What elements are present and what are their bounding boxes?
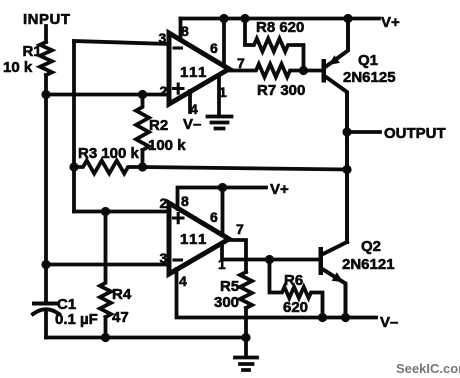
- svg-text:3: 3: [159, 30, 167, 46]
- svg-text:100 k: 100 k: [148, 137, 186, 154]
- wire op1 pin8: [179, 19, 183, 41]
- wire Q2 emitter: [323, 270, 346, 318]
- wire C1 bottom: [44, 310, 48, 338]
- op-amp U1: [169, 33, 229, 104]
- capacitor C1: [34, 302, 58, 306]
- svg-text:V–: V–: [380, 314, 398, 331]
- svg-text:V+: V+: [270, 181, 289, 198]
- node junction C1 pin3: [41, 260, 50, 269]
- node junction R4 top: [101, 207, 110, 216]
- transistor Q2 emitter arrow: [332, 272, 344, 282]
- resistor R2: [136, 95, 149, 168]
- node junction R3 right: [138, 162, 147, 171]
- op-amp U2 minus sign: [174, 258, 182, 261]
- transistor Q1: [322, 59, 327, 83]
- resistor R3: [74, 161, 143, 174]
- svg-text:300: 300: [214, 294, 239, 311]
- svg-text:R7 300: R7 300: [257, 82, 305, 99]
- svg-text:111: 111: [180, 64, 208, 81]
- op-amp U2 plus sign: [174, 214, 184, 223]
- node junction OUTPUT: [342, 127, 351, 136]
- wire op1 pin6: [222, 19, 226, 67]
- svg-text:7: 7: [236, 221, 244, 237]
- wire input stub: [44, 26, 48, 42]
- node junction R7 R8 base: [299, 66, 308, 75]
- svg-text:V–: V–: [183, 116, 201, 133]
- wire op2 pin6: [221, 188, 225, 236]
- wire op1 pin4 stub: [188, 91, 192, 112]
- svg-text:R6: R6: [284, 272, 303, 289]
- node junction R6 left: [265, 255, 274, 264]
- svg-text:6: 6: [210, 40, 218, 56]
- op-amp U1 minus sign: [174, 46, 182, 49]
- node junction R3 left: [69, 162, 78, 171]
- svg-text:R2: R2: [149, 117, 168, 134]
- svg-text:R4: R4: [112, 286, 132, 303]
- node junction R2 top: [138, 90, 147, 99]
- svg-text:2N6121: 2N6121: [342, 256, 395, 273]
- wire left vertical: [44, 95, 48, 302]
- wire Q1 base: [304, 69, 322, 73]
- resistor R8: [245, 19, 304, 71]
- svg-text:SeekIC.com: SeekIC.com: [396, 361, 460, 376]
- wire op2 V+ rail: [178, 188, 267, 210]
- wire Q1 emitter: [326, 19, 348, 67]
- svg-text:3: 3: [160, 250, 168, 266]
- resistor R6: [270, 260, 323, 318]
- svg-text:Q2: Q2: [361, 238, 381, 255]
- wire OUTPUT: [347, 130, 380, 134]
- op-amp U1 plus sign: [174, 84, 184, 93]
- transistor Q1 emitter arrow: [329, 55, 340, 65]
- wire op2 pin2: [74, 210, 169, 214]
- svg-text:1: 1: [219, 84, 227, 100]
- wire feedback to output: [143, 167, 348, 170]
- svg-text:V+: V+: [381, 14, 400, 31]
- svg-text:7: 7: [237, 55, 245, 71]
- node junction R4 bottom: [101, 333, 110, 342]
- svg-text:Q1: Q1: [358, 52, 378, 69]
- svg-text:R5: R5: [220, 278, 239, 295]
- wire op2 pin1 to Q2 base: [222, 244, 319, 260]
- resistor R5: [240, 272, 252, 338]
- wire ground rail bottom: [46, 336, 246, 340]
- svg-text:620: 620: [283, 299, 308, 316]
- wire op1 pin2 input rail: [46, 93, 169, 97]
- wire Q1 collector: [326, 77, 347, 242]
- svg-text:2: 2: [160, 83, 168, 99]
- svg-text:6: 6: [210, 209, 218, 225]
- svg-text:111: 111: [180, 231, 208, 248]
- node junction Q2 emitter Vminus: [341, 313, 350, 322]
- svg-text:R3 100 k: R3 100 k: [78, 145, 140, 162]
- ground op1 pin1: [208, 117, 232, 129]
- wire op2 pin7: [229, 240, 246, 272]
- node junction ground: [241, 333, 250, 342]
- svg-text:R8 620: R8 620: [256, 19, 304, 36]
- node junction R8 rail: [240, 14, 249, 23]
- svg-text:8: 8: [181, 193, 189, 209]
- resistor R1: [40, 42, 52, 95]
- transistor Q2: [319, 247, 324, 275]
- wire op1 pin3 top: [74, 41, 169, 44]
- svg-text:47: 47: [112, 309, 129, 326]
- op-amp U2: [169, 203, 229, 274]
- svg-text:4: 4: [190, 101, 198, 117]
- resistor R7: [229, 64, 304, 77]
- svg-text:OUTPUT: OUTPUT: [384, 125, 446, 142]
- svg-text:R1: R1: [23, 43, 42, 60]
- svg-text:0.1 µF: 0.1 µF: [55, 311, 98, 328]
- node junction op2 pin6 rail: [218, 183, 227, 192]
- svg-text:2N6125: 2N6125: [343, 69, 396, 86]
- svg-text:2: 2: [160, 195, 168, 211]
- svg-text:INPUT: INPUT: [23, 11, 71, 28]
- node junction pin6 rail: [219, 14, 228, 23]
- svg-text:10 k: 10 k: [3, 59, 33, 76]
- wire op2 pin3: [46, 263, 169, 267]
- svg-text:8: 8: [181, 23, 189, 39]
- wire Q2 collector: [323, 242, 347, 254]
- resistor R4: [100, 212, 111, 338]
- node junction Q1 emitter rail: [343, 14, 352, 23]
- node junction R6 right Vminus: [318, 313, 327, 322]
- svg-text:4: 4: [179, 273, 187, 289]
- wire top V+ rail: [181, 17, 380, 21]
- ground bottom: [235, 338, 257, 371]
- node junction R1 bottom: [41, 90, 50, 99]
- wire op1 pin1: [217, 75, 221, 115]
- wire op2 pin4 to V-: [177, 269, 377, 318]
- wire x74 vertical: [72, 41, 76, 212]
- svg-text:1: 1: [218, 256, 226, 272]
- node junction feedback-output: [342, 165, 351, 174]
